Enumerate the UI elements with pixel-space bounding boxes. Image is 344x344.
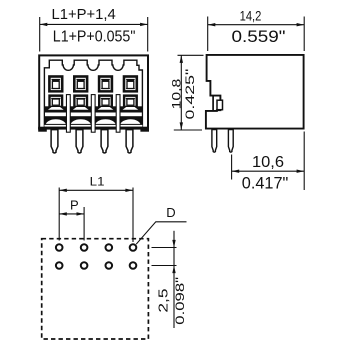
clamp yoke pole 1 [46,106,65,110]
upper window pole 1 [48,75,63,92]
solder pin 4 front view [126,130,133,153]
front view clamp band background [44,106,142,129]
front view inner housing profile [44,60,142,127]
dimension 10,6 dimension line [232,170,305,172]
dimension L1+P+1,4 extension line right [147,17,149,52]
solder pin 1 front view [51,130,58,153]
left foot [38,127,47,131]
dimension 10,8 dimension line [180,55,182,130]
bottom white strip [44,125,142,127]
bottom arch pole 2 [70,119,91,125]
upper window pole 4 [123,75,138,92]
front view outer body [39,55,148,128]
svg-text:P: P [70,198,79,213]
busbar strip [45,113,142,117]
separator wall 2 [91,95,95,133]
solder pin row 2 side view [228,130,233,153]
solder pin 2 front view [76,130,83,153]
drill hole row 2 col 2 [81,262,88,269]
svg-text:2,5: 2,5 [156,289,170,313]
svg-text:0.425": 0.425" [183,69,197,120]
dimension P extension line col2 [83,207,85,241]
bottom arch pole 1 [45,119,66,125]
drill hole row 2 col 1 [56,262,63,269]
svg-text:D: D [166,205,175,220]
dimension 14,2 extension line left [207,17,209,52]
dimension 10,8 extension line bottom [174,129,202,131]
dimension 10,8 extension line top [178,54,204,56]
lower window pole 4 [123,94,138,106]
svg-text:L1+P+1,4: L1+P+1,4 [52,7,116,23]
dimension 10,6 extension line right [303,132,305,191]
lower window pole 2 [73,94,88,106]
drill hole row 1 col 4 [130,244,137,251]
upper window pole 2 [73,75,88,92]
drill hole row 1 col 1 [56,244,63,251]
clamp yoke pole 3 [96,106,115,110]
solder pin 3 front view [101,130,108,153]
separator wall 1 [66,95,70,133]
bottom arch pole 3 [95,119,116,125]
body bottom border [38,127,149,130]
latch inner line [212,96,214,110]
svg-text:0.098": 0.098" [173,277,187,325]
separator wall 3 [116,95,120,133]
dimension 2,5 extension line row1 [152,247,177,249]
drill hole row 1 col 2 [81,244,88,251]
svg-text:14,2: 14,2 [240,9,262,24]
dimension L1+P+1,4 extension line left [39,17,41,52]
svg-text:L1: L1 [90,174,105,188]
dimension L1 extension line col4 [132,188,134,243]
dome base line [44,124,142,125]
svg-text:L1+P+0.055": L1+P+0.055" [53,28,136,45]
dashed PCB outline [42,239,149,339]
bottom arch pole 4 [120,119,141,125]
dimension P dimension line [59,213,84,215]
solder pin row 1 side view [212,130,217,153]
lower window pole 3 [98,94,113,106]
dimension 2,5 dimension line [173,231,175,328]
clamp yoke pole 4 [121,106,140,110]
drill hole row 2 col 3 [106,262,113,269]
dimension L1 extension line col1 [58,188,60,241]
drill hole row 1 col 3 [106,244,113,251]
dimension L1+P+1,4 dimension line [40,23,148,25]
svg-text:0.417": 0.417" [242,173,288,192]
lower window pole 1 [48,94,63,106]
dimension 10,6 extension line left (from pin) [231,155,233,180]
dimension L1 dimension line [59,189,133,191]
upper window pole 3 [98,75,113,92]
drill hole row 2 col 4 [130,262,137,269]
svg-text:0.559": 0.559" [232,27,286,46]
clamp yoke pole 2 [71,106,90,110]
dimension 14,2 extension line right [303,17,305,52]
svg-text:10,6: 10,6 [252,154,284,171]
dimension 14,2 dimension line [208,24,305,26]
latch small block [217,100,223,110]
right foot [140,127,149,131]
leader line for D [136,222,186,244]
svg-text:10,8: 10,8 [170,78,184,109]
dimension 2,5 extension line row2 [152,265,177,267]
side view body outline [206,55,304,129]
